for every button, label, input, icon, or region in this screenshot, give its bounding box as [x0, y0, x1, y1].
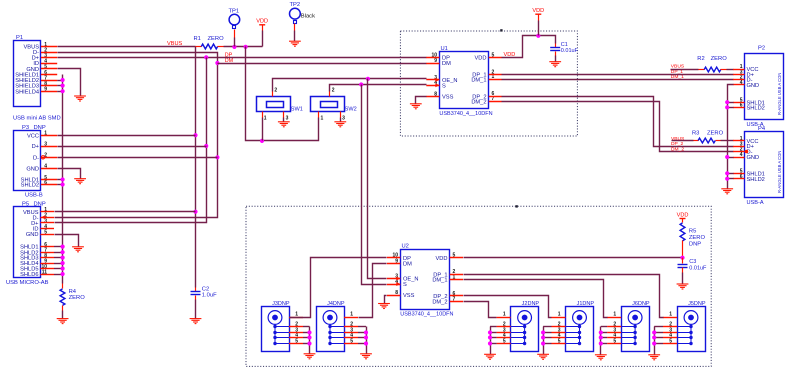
connector P2 USB-A [745, 54, 784, 120]
svg-text:ZERO: ZERO [711, 56, 728, 62]
border dot artifacts [500, 29, 502, 31]
svg-text:1: 1 [669, 312, 672, 318]
svg-text:1.0uF: 1.0uF [202, 293, 217, 299]
SW1 pin3 to ground [283, 112, 285, 118]
svg-text:DNP: DNP [689, 241, 701, 247]
GND chain junctions [725, 100, 729, 104]
ground SW2 [334, 122, 346, 127]
ground P1 [74, 96, 86, 101]
wire U2 VDD rail [464, 257, 683, 259]
svg-text:R-ANGLE USB A CON: R-ANGLE USB A CON [777, 151, 782, 193]
wire U2 DP_1 to J5 pin1 [464, 275, 664, 318]
wire DP column to P3 D+ / P5 D+ [55, 58, 207, 223]
SW2 pin 2 stub [329, 92, 331, 97]
P5 pin stubs [40, 212, 54, 275]
svg-text:GND: GND [747, 83, 760, 89]
svg-text:SHLD2: SHLD2 [21, 183, 39, 189]
connector P4 USB-A [745, 132, 784, 198]
svg-text:SHLD6: SHLD6 [20, 272, 38, 278]
ground C3 [677, 284, 689, 289]
wire DP main (P1 D+ to U1 DP) [58, 57, 427, 59]
junction DM label row [215, 61, 219, 65]
J4DNP inner shield pins [328, 324, 344, 345]
J6DNP inner shield pins [621, 324, 637, 345]
wire DP_1 U1 to P2 D+ [502, 74, 734, 76]
wire P3 VCC [58, 135, 196, 137]
svg-text:ZERO: ZERO [689, 235, 706, 241]
P3 D- no-ERC circle [41, 156, 44, 159]
wire VBUS stub at R2 [671, 69, 699, 71]
svg-text:J1DNP: J1DNP [577, 301, 595, 307]
connector J1DNP coax [566, 307, 594, 352]
svg-text:2: 2 [332, 88, 335, 94]
svg-text:USB-B: USB-B [25, 192, 43, 198]
wire U2 VSS to ground [385, 296, 387, 304]
ground R4 [57, 319, 69, 324]
U1 right pin names [471, 56, 486, 106]
ground C1 [549, 62, 561, 67]
wire P1 GND to ground [58, 69, 81, 97]
svg-text:1: 1 [264, 116, 267, 122]
resistor R4 ZERO [62, 284, 64, 289]
svg-text:P4: P4 [758, 126, 766, 132]
junction S column [359, 82, 363, 86]
wire P3 GND to ground [58, 169, 81, 179]
ground J1DNP [537, 354, 549, 359]
P4 pin names [747, 139, 765, 183]
svg-text:TP2: TP2 [290, 2, 301, 8]
connector J3DNP coax [262, 307, 290, 352]
svg-text:J6DNP: J6DNP [632, 301, 650, 307]
junction VBUS-P3 [193, 133, 197, 137]
J3DNP pin stubs [289, 318, 310, 344]
svg-text:SHIELD4: SHIELD4 [15, 89, 39, 95]
ground J6DNP [595, 355, 607, 360]
P5 D- ERC arrow [41, 215, 45, 219]
P2 pin stubs [733, 70, 744, 108]
svg-text:0.01uF: 0.01uF [561, 48, 579, 54]
svg-text:P2: P2 [758, 45, 765, 51]
svg-text:VDD: VDD [677, 212, 689, 218]
op-amp U1 USB3740 switch [440, 52, 489, 109]
junction VDD-C1 [536, 34, 540, 38]
svg-text:3: 3 [342, 116, 345, 122]
capacitor C1 0.01uF [555, 44, 557, 48]
J3DNP inner shield pins [273, 324, 289, 345]
svg-text:GND: GND [26, 232, 39, 238]
svg-text:1: 1 [503, 312, 506, 318]
wire U2 DM to J4 pin1 [359, 264, 387, 318]
svg-text:DM_2: DM_2 [471, 99, 486, 105]
P3 pin stubs [41, 136, 57, 185]
P2 pin numbers [740, 64, 743, 108]
U1 right pin stubs [489, 58, 502, 102]
wire U2 DM_2 to J2 pin1 [464, 302, 497, 318]
svg-text:R2: R2 [697, 56, 704, 62]
svg-text:DM_2: DM_2 [671, 146, 684, 152]
svg-text:J4DNP: J4DNP [327, 301, 345, 307]
svg-text:1: 1 [613, 312, 616, 318]
J1DNP pin stubs [543, 318, 565, 344]
svg-text:C3: C3 [689, 259, 696, 265]
svg-text:SHLD2: SHLD2 [747, 177, 765, 183]
svg-text:S: S [403, 282, 407, 288]
wire P1 D- to DM column [55, 53, 218, 218]
svg-text:DM: DM [403, 261, 412, 267]
svg-text:USB-A: USB-A [747, 200, 764, 206]
svg-text:D+: D+ [32, 144, 40, 150]
svg-text:ZERO: ZERO [69, 295, 86, 301]
J6DNP shield chain to ground [600, 327, 602, 355]
svg-text:P3: P3 [22, 125, 29, 131]
connector J6DNP coax [622, 307, 650, 352]
wire U1 VDD to C1 and VDD rail [502, 36, 556, 58]
wire SW1 pin1 [262, 118, 264, 141]
svg-text:SW2: SW2 [345, 107, 357, 113]
svg-text:DM: DM [442, 61, 451, 67]
U2 right pin stubs [450, 258, 463, 302]
P1 pin numbers 1-9 [44, 42, 47, 93]
wire R4 to ground [62, 311, 64, 319]
wire S column to U2 [362, 85, 387, 285]
svg-text:DM_2: DM_2 [432, 299, 447, 305]
J2DNP pin numbers [503, 312, 506, 345]
J6DNP pin numbers [613, 312, 616, 345]
SW1 pin 2 stub [272, 92, 274, 97]
svg-text:1: 1 [295, 312, 298, 318]
dashed box (U1 optional circuit) [400, 31, 577, 136]
svg-text:C2: C2 [202, 286, 209, 292]
P4 pin numbers [740, 136, 743, 180]
ground J4DNP [360, 354, 372, 359]
P4 pin stubs [733, 141, 744, 179]
svg-text:R4: R4 [69, 289, 77, 295]
connector P5 USB MICRO-AB (DNP) [14, 207, 41, 278]
U2 left pin names [403, 256, 419, 299]
ground P2/P4 [721, 189, 733, 194]
U2 left pin stubs [387, 258, 400, 296]
U1 right pin numbers [492, 52, 495, 102]
ground J5DNP [648, 355, 660, 360]
wire P3 D- [58, 157, 218, 159]
wire TP2 to ground [294, 24, 296, 31]
U2 left pin numbers [392, 253, 398, 296]
resistor R2 ZERO [699, 69, 705, 71]
J4DNP pin numbers [350, 312, 353, 345]
SW1 SW2 pin1 stubs [262, 112, 264, 118]
J1DNP shield chain to ground [543, 327, 545, 355]
wire C2 to ground [195, 300, 197, 319]
wire DM_1 U1 to P2 D- [502, 79, 734, 81]
svg-text:2: 2 [274, 88, 277, 94]
svg-text:USB3740_4__10DFN: USB3740_4__10DFN [400, 312, 453, 318]
P3 shield chain links and junctions [57, 180, 63, 185]
U1 left pin numbers [431, 52, 437, 97]
svg-text:J2DNP: J2DNP [522, 301, 540, 307]
svg-text:R5: R5 [689, 229, 696, 235]
P1 shield chain links and junctions [57, 81, 63, 92]
U1 OE_N arrow [435, 78, 439, 82]
P2 pin names [747, 67, 765, 111]
ground C2 [190, 319, 202, 324]
switch SW2 [311, 97, 345, 112]
J3DNP circle [268, 311, 282, 325]
wire GND chain P2/P4 to ground [728, 85, 734, 189]
J1DNP circle [573, 311, 587, 325]
P5 pin names [20, 210, 39, 278]
wire C3 to ground [682, 273, 684, 285]
wire P5 GND to ground [55, 235, 79, 247]
wire shield chain P1/P3/P5 to R4 [62, 75, 64, 284]
wire R3 to P4 VCC [721, 140, 734, 142]
resistor R5 ZERO DNP [682, 219, 684, 223]
dashed box (DNP alternate circuit) [246, 206, 711, 366]
U2 S arrow [396, 282, 400, 286]
SW2 pin3 to ground [340, 112, 342, 118]
ground U2 VSS [378, 304, 390, 309]
svg-text:DP_2: DP_2 [671, 141, 684, 147]
wire C1 to ground [555, 56, 557, 62]
P4 D- ERC dot [745, 150, 749, 154]
svg-text:GND: GND [26, 166, 39, 172]
resistor R1 ZERO [196, 46, 202, 48]
wire U2 DM_1 to J6 pin1 [464, 280, 608, 318]
junction DP column [204, 55, 208, 59]
svg-text:USB3740_4__10DFN: USB3740_4__10DFN [439, 111, 492, 117]
J4DNP shield chain to ground [366, 327, 368, 354]
J5DNP pin numbers [669, 312, 672, 345]
wire VDD to SW1/SW2 pin1 [246, 47, 319, 141]
wire P5 VBUS [55, 211, 196, 213]
wire U2 DP to J3 pin1 [290, 258, 387, 318]
P3 pin names [21, 133, 40, 188]
junction TP1 [232, 45, 236, 49]
svg-text:ZERO: ZERO [707, 131, 724, 137]
wire U1 VSS to ground [416, 97, 427, 104]
svg-text:0.01uF: 0.01uF [689, 265, 707, 271]
svg-text:R-ANGLE USB A CON: R-ANGLE USB A CON [777, 73, 782, 115]
ground P3 [74, 179, 86, 184]
U1 left pin stubs [426, 58, 439, 97]
connector J5DNP coax [678, 307, 706, 352]
svg-text:VDD: VDD [532, 8, 544, 14]
junction DP-P3 D+ [204, 144, 208, 148]
J2DNP inner shield pins [511, 324, 527, 345]
U1 left pin names [442, 56, 458, 101]
junction R5/C3 [680, 256, 684, 260]
ground SW1 [278, 122, 290, 127]
svg-text:VDD: VDD [256, 19, 268, 25]
J2DNP circle [518, 311, 532, 325]
J4DNP pin stubs [344, 318, 366, 344]
switch SW1 [257, 97, 291, 112]
J2DNP pin stubs [490, 318, 511, 344]
svg-text:DM_1: DM_1 [432, 278, 447, 284]
svg-text:P1: P1 [16, 35, 23, 41]
connector J4DNP coax [317, 307, 345, 352]
svg-text:USB mini AB SMD: USB mini AB SMD [13, 116, 61, 122]
U2 right pin names [432, 256, 447, 306]
svg-text:VSS: VSS [442, 95, 454, 101]
junction SW1 pin1 [260, 139, 264, 143]
svg-text:Black: Black [301, 13, 315, 19]
ground U1 VSS [410, 104, 422, 109]
P1 pin names [15, 45, 39, 96]
capacitor C2 1.0uF [195, 288, 197, 292]
svg-text:1: 1 [350, 312, 353, 318]
J6DNP circle [628, 311, 642, 325]
wire P3 D+ [58, 146, 207, 148]
wire DM main to U1 DM [218, 63, 427, 65]
P5 shield chain links and junctions [54, 247, 63, 275]
wire OE_N SW1 to U1 [273, 79, 427, 92]
svg-text:R1: R1 [194, 36, 201, 42]
J5DNP inner shield pins [677, 324, 693, 345]
junction VDD feed [244, 45, 248, 49]
svg-text:VCC: VCC [27, 133, 39, 139]
svg-text:C1: C1 [561, 42, 568, 48]
svg-text:3: 3 [286, 116, 289, 122]
svg-text:U2: U2 [402, 244, 409, 250]
wire R2 to P2 VCC [727, 69, 734, 71]
J1DNP inner shield pins [566, 324, 582, 345]
svg-text:J5DNP: J5DNP [688, 301, 706, 307]
wire DP_2 U1 to P4 D+ [502, 97, 734, 147]
P1 pin stubs [41, 47, 57, 92]
ground TP2 [289, 41, 301, 46]
wire VBUS stub at R3 [672, 140, 694, 142]
svg-text:1: 1 [321, 116, 324, 122]
J1DNP pin numbers [558, 312, 561, 345]
svg-text:VBUS: VBUS [671, 64, 685, 70]
svg-text:R3: R3 [692, 131, 699, 137]
ground J3DNP [304, 354, 316, 359]
svg-text:SW1: SW1 [291, 107, 303, 113]
J3DNP pin numbers [295, 312, 298, 345]
J2DNP shield chain to ground [490, 327, 492, 355]
svg-text:SHLD2: SHLD2 [747, 106, 765, 112]
GND chain links [727, 103, 733, 179]
wire VBUS P1 to R1 [58, 46, 196, 48]
svg-text:ZERO: ZERO [208, 36, 225, 42]
capacitor C3 0.01uF [682, 258, 684, 264]
J6DNP pin stubs [601, 318, 621, 344]
junction OE_N column [366, 77, 370, 81]
junction VBUS-P5 [193, 210, 197, 214]
svg-text:VDD: VDD [435, 256, 447, 262]
svg-text:U1: U1 [441, 46, 448, 52]
J3DNP shield chain to ground [309, 327, 311, 354]
svg-text:D-: D- [33, 155, 39, 161]
P5 pin numbers 1-11 [41, 207, 47, 275]
J4DNP circle [323, 311, 337, 325]
U1 S arrow [435, 83, 439, 87]
wire DM_2 U1 to P4 D- [502, 102, 734, 152]
U2 OE_N arrow [396, 277, 400, 281]
op-amp U2 USB3740 switch (DNP) [401, 250, 450, 310]
ground P5 [72, 247, 84, 252]
resistor R3 ZERO [694, 140, 699, 142]
svg-text:DM_1: DM_1 [471, 77, 486, 83]
wire U2 DP_2 to J1 pin1 [464, 296, 552, 318]
svg-text:J3DNP: J3DNP [272, 301, 290, 307]
svg-text:GND: GND [747, 155, 760, 161]
J5DNP circle [684, 311, 698, 325]
wire VDD after R1 [224, 46, 263, 48]
svg-text:P5: P5 [22, 201, 29, 207]
svg-text:1: 1 [558, 312, 561, 318]
J5DNP shield chain to ground [654, 327, 656, 355]
wire VBUS vertical to P3 VCC / P5 VBUS / C2 [195, 47, 197, 288]
wire S SW2 to U1 [330, 85, 427, 92]
junction DM-P3 D- [215, 155, 219, 159]
svg-text:VSS: VSS [403, 293, 415, 299]
J5DNP pin stubs [654, 318, 677, 344]
connector P1 USB mini AB [14, 41, 41, 107]
svg-text:S: S [442, 83, 446, 89]
U2 right pin numbers [453, 253, 456, 303]
svg-text:USB MICRO-AB: USB MICRO-AB [6, 280, 49, 286]
svg-text:VDD: VDD [474, 56, 486, 62]
P3 pin numbers [44, 131, 47, 186]
ground J2DNP [484, 354, 496, 359]
connector J2DNP coax [511, 307, 539, 352]
connector P3 USB-B (DNP) [14, 131, 41, 191]
wire OE_N column to U2 [368, 79, 387, 279]
